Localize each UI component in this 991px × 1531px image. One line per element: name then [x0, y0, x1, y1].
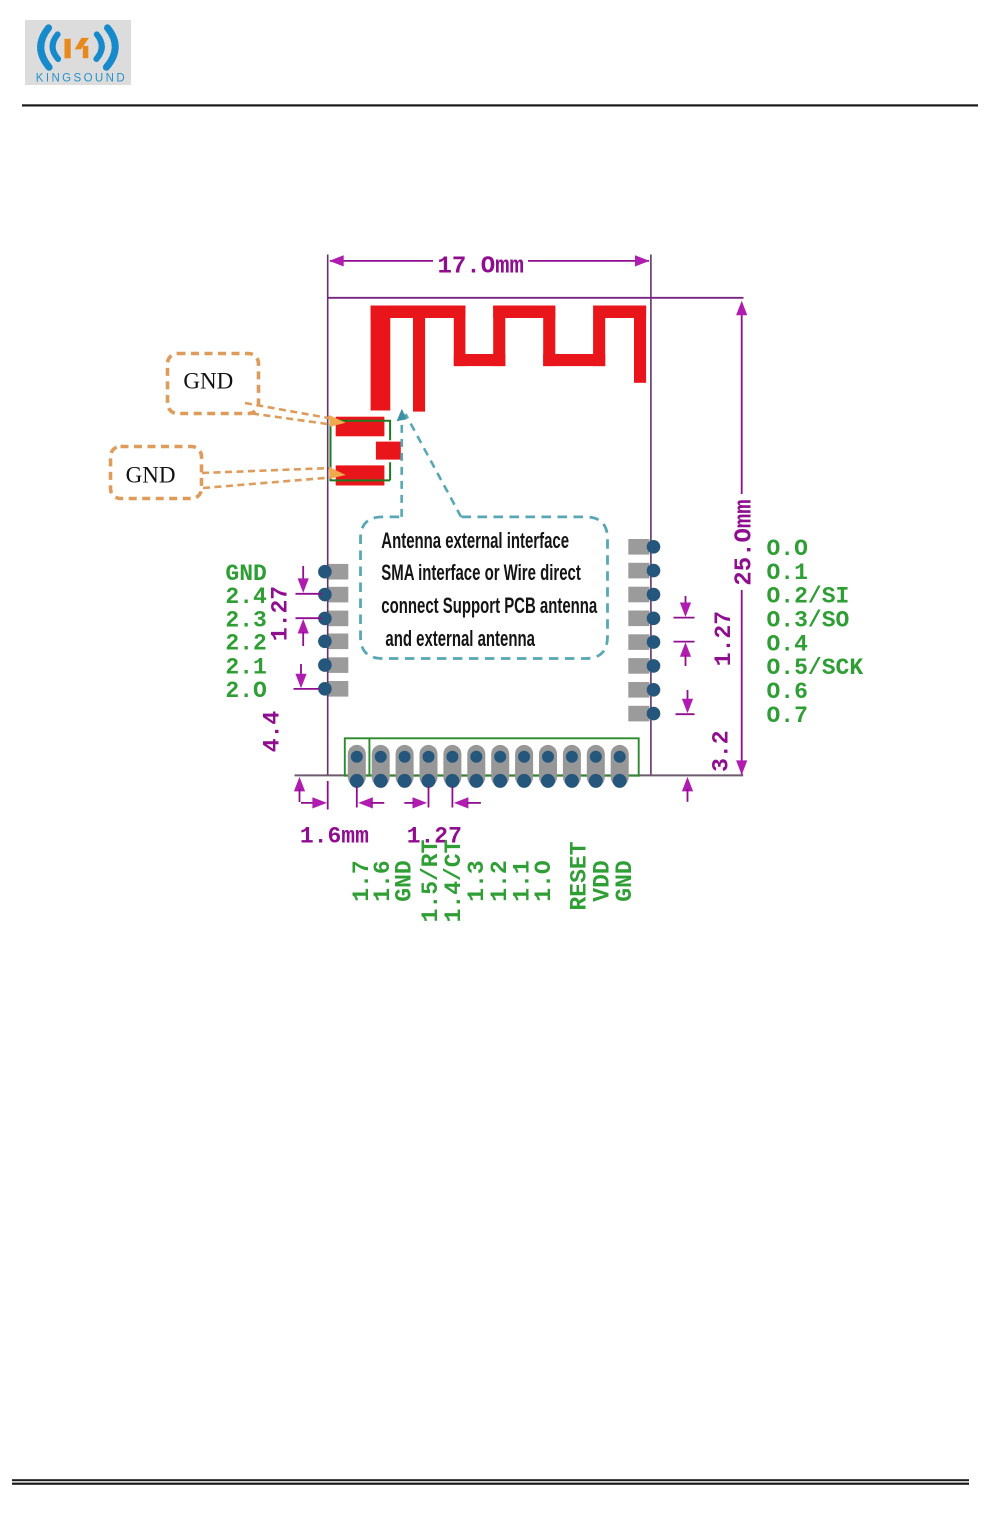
svg-text:SMA interface or Wire direct: SMA interface or Wire direct	[381, 560, 581, 585]
svg-text:GND: GND	[612, 860, 638, 901]
svg-text:O.2/SI: O.2/SI	[767, 584, 850, 610]
svg-text:and external antenna: and external antenna	[385, 626, 535, 651]
svg-text:2.1: 2.1	[225, 654, 266, 680]
svg-text:connect Support PCB antenna: connect Support PCB antenna	[381, 593, 597, 618]
svg-text:O.O: O.O	[767, 536, 808, 562]
svg-text:O.4: O.4	[767, 631, 809, 657]
svg-text:1.27: 1.27	[711, 611, 737, 666]
svg-text:Antenna external interface: Antenna external interface	[381, 528, 569, 553]
svg-text:O.3/SO: O.3/SO	[767, 608, 850, 634]
svg-text:4.4: 4.4	[260, 711, 286, 753]
svg-text:2.O: 2.O	[225, 678, 266, 704]
svg-text:1.O: 1.O	[531, 860, 557, 901]
svg-text:O.1: O.1	[767, 560, 808, 586]
svg-text:3.2: 3.2	[709, 730, 735, 771]
svg-text:O.6: O.6	[767, 679, 808, 705]
svg-text:25.Omm: 25.Omm	[732, 499, 759, 585]
svg-text:1.6mm: 1.6mm	[300, 823, 369, 849]
svg-text:2.4: 2.4	[225, 584, 267, 610]
svg-text:2.2: 2.2	[225, 631, 266, 657]
svg-text:1.27: 1.27	[267, 586, 293, 641]
svg-text:KINGSOUND: KINGSOUND	[36, 72, 127, 84]
svg-text:GND: GND	[183, 368, 233, 393]
svg-text:17.Omm: 17.Omm	[437, 254, 523, 281]
svg-text:O.5/SCK: O.5/SCK	[767, 655, 864, 681]
svg-text:GND: GND	[391, 860, 417, 901]
svg-text:O.7: O.7	[767, 703, 808, 729]
svg-text:GND: GND	[126, 463, 176, 488]
